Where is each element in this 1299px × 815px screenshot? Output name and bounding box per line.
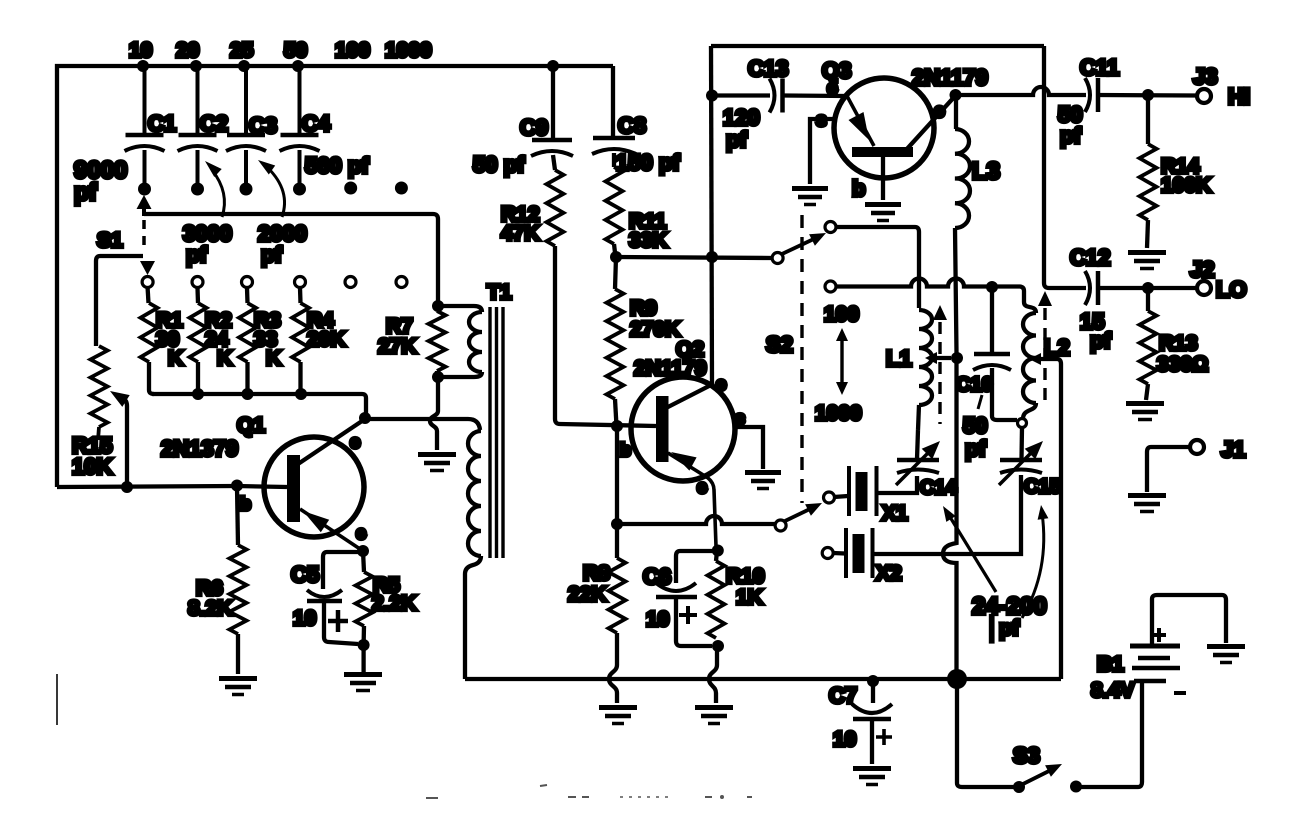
label: C5 value 10 xyxy=(293,607,316,630)
label: C8 value 150 pf xyxy=(616,150,680,175)
svg-text:c: c xyxy=(934,101,945,122)
leader arrow to C3 xyxy=(258,160,285,217)
svg-text:L1: L1 xyxy=(886,346,912,371)
node: S1 contact 3 xyxy=(242,277,253,288)
resistor R2 xyxy=(190,288,207,394)
svg-text:47K: 47K xyxy=(501,222,540,245)
svg-text:C3: C3 xyxy=(249,113,277,138)
node: Q1 emitter junction xyxy=(357,545,369,557)
wire: R7 to ground (hops collector line) xyxy=(430,377,438,450)
label: C7 xyxy=(829,683,857,708)
svg-text:24-200: 24-200 xyxy=(972,593,1047,620)
transformer T1 secondary xyxy=(465,431,481,679)
node: C10 top junction xyxy=(986,281,998,293)
svg-text:c: c xyxy=(350,432,360,452)
capacitor C12 xyxy=(1085,271,1098,305)
label: X1 xyxy=(882,502,908,525)
wire: R12 to Q2 base xyxy=(555,246,656,426)
svg-text:R8: R8 xyxy=(583,562,610,585)
svg-text:pf: pf xyxy=(1060,123,1081,148)
capacitor C8 xyxy=(592,66,636,167)
svg-text:50 pf: 50 pf xyxy=(473,152,525,177)
wire: S1 pole from R15 xyxy=(96,256,143,346)
label: X2 xyxy=(876,562,902,585)
svg-text:J1: J1 xyxy=(1221,437,1245,462)
pot R15 wiper xyxy=(110,391,130,482)
resistor R11 xyxy=(606,167,623,257)
label: LO xyxy=(1216,277,1247,302)
svg-text:1K: 1K xyxy=(736,586,763,609)
capacitor C9 xyxy=(531,66,573,170)
transistor Q2 collector xyxy=(666,384,713,408)
svg-text:│pf: │pf xyxy=(986,615,1020,642)
svg-text:8.2K: 8.2K xyxy=(188,597,232,620)
node: R11 bottom junction xyxy=(610,251,622,263)
svg-text:e: e xyxy=(827,78,838,99)
inductor L1 slug arrow xyxy=(933,305,947,424)
label: R4 20K xyxy=(307,309,346,351)
leader arrow to C15 xyxy=(1022,505,1048,618)
label: R13 330 ohm xyxy=(1157,332,1208,376)
node: R13 top junction xyxy=(1142,282,1154,294)
label: Q2 s xyxy=(735,408,745,428)
svg-text:22K: 22K xyxy=(568,583,607,606)
node: R7 top junction xyxy=(432,300,444,312)
label: L1 xyxy=(886,346,912,371)
capacitor C7 xyxy=(852,681,892,764)
label: L3 xyxy=(972,158,1000,185)
capacitor C6 xyxy=(656,551,714,646)
label: Q2 xyxy=(676,338,704,361)
switch S2 lower throw (to X1) xyxy=(824,492,835,503)
node: bus junction dots xyxy=(137,60,559,72)
crystal X1 xyxy=(849,466,877,516)
label: J3 xyxy=(1193,64,1217,89)
transistor Q3 base lead xyxy=(881,157,885,200)
label: C13 value 120 pf xyxy=(723,105,760,152)
node: X2 contact xyxy=(822,548,833,559)
resistor R1 xyxy=(141,288,158,394)
transistor Q3 s lead xyxy=(810,119,835,184)
node: R5 C5 bottom junction xyxy=(358,639,370,651)
wire: J1 to ground xyxy=(1147,447,1190,492)
resistor R12 xyxy=(547,170,564,246)
label: S1 xyxy=(97,229,123,252)
potentiometer R15 xyxy=(91,346,108,440)
wire: HI line (hops vertical) xyxy=(956,87,1087,95)
inductor L2 tap xyxy=(1029,353,1061,679)
ground: Q2 s xyxy=(745,473,781,489)
svg-text:10: 10 xyxy=(646,608,669,631)
transistor Q1 emitter xyxy=(300,509,363,551)
switch S2 lower-left contact xyxy=(825,281,836,292)
svg-text:X1: X1 xyxy=(882,502,908,525)
svg-text:pf: pf xyxy=(74,179,98,206)
label: B1 8.4V xyxy=(1091,653,1134,702)
wire: throw to L1 top xyxy=(836,227,919,308)
resistor R6 xyxy=(230,487,247,674)
svg-text:100: 100 xyxy=(335,39,370,62)
svg-text:C5: C5 xyxy=(291,562,319,587)
ground: R13 xyxy=(1126,404,1164,420)
svg-text:K: K xyxy=(217,347,232,370)
artifact: bottom smudges xyxy=(426,785,752,799)
label: Q3 b xyxy=(852,176,865,201)
wire: LO feedback line (hops two verticals) xyxy=(836,279,1024,303)
label: R9 270K xyxy=(630,297,680,341)
svg-text:R9: R9 xyxy=(630,297,657,320)
wire: battery plus to ground xyxy=(1152,595,1226,644)
svg-text:S1: S1 xyxy=(97,229,123,252)
svg-text:20K: 20K xyxy=(307,328,346,351)
battery B1 xyxy=(1130,646,1180,688)
capacitor C1 xyxy=(125,66,177,196)
node: main bottom junction xyxy=(947,669,967,689)
label: R3 33K xyxy=(254,309,281,370)
svg-text:L2: L2 xyxy=(1044,335,1070,360)
label: position 20 xyxy=(176,39,199,62)
label: Q3 xyxy=(822,58,851,83)
svg-text:c: c xyxy=(716,374,726,394)
transistor Q3 emitter xyxy=(847,96,874,146)
label: C11 xyxy=(1080,55,1119,80)
node: S1 contact 4 xyxy=(295,277,306,288)
label: position 10 xyxy=(129,39,152,62)
wire: S3 to battery minus xyxy=(1076,683,1142,787)
svg-text:100: 100 xyxy=(824,303,859,326)
inductor L2 xyxy=(1023,302,1036,418)
wire: bottom common bus xyxy=(465,677,1061,681)
ground: J1 xyxy=(1128,496,1166,512)
label: C15 xyxy=(1024,476,1061,498)
capacitor C10 xyxy=(973,287,1017,420)
label: R7 27K xyxy=(378,315,417,358)
label: R14 100K xyxy=(1161,155,1211,197)
svg-text:10: 10 xyxy=(129,39,152,62)
node: S1 contact 2 xyxy=(192,277,203,288)
wire: X1 to C14 bottom xyxy=(877,476,918,493)
svg-text:pf: pf xyxy=(965,436,986,461)
switch S1 gang dashed link xyxy=(142,220,146,252)
svg-text:s: s xyxy=(735,408,745,428)
label: S2 position 100 xyxy=(824,303,859,326)
label: C6 polarity + xyxy=(679,606,697,624)
label: C12 value 15 pf xyxy=(1080,309,1111,353)
wire: base node to S2 lower pole (hops emitter) xyxy=(617,516,775,524)
svg-text:330Ω: 330Ω xyxy=(1157,353,1208,376)
wire: contact to X2 xyxy=(833,551,845,556)
label: C13 xyxy=(748,56,788,81)
label: C7 polarity + xyxy=(876,729,892,745)
node: S1 contact 5 xyxy=(345,277,356,288)
node: C7 junction xyxy=(867,675,879,687)
resistor R5 xyxy=(356,551,373,645)
svg-text:HI: HI xyxy=(1228,84,1250,109)
switch S1 wiper arrow (to C1 node) xyxy=(137,195,152,216)
ground: R6 xyxy=(219,679,257,695)
label: C12 xyxy=(1070,245,1110,270)
svg-text:Q1: Q1 xyxy=(237,414,265,437)
svg-text:2N1179: 2N1179 xyxy=(912,65,988,90)
node: unused dots 100/1000 xyxy=(344,182,408,195)
node: Q1 collector junction xyxy=(359,412,371,424)
ground: R8 xyxy=(599,708,637,724)
label: C5 polarity + xyxy=(328,610,348,632)
label: Q3 type 2N1179 xyxy=(912,65,988,90)
switch S3 throw xyxy=(1070,781,1082,793)
capacitor C3 xyxy=(226,66,277,196)
label: Q2 type 2N1179 xyxy=(634,357,706,380)
capacitor C4 xyxy=(280,66,331,196)
svg-text:50: 50 xyxy=(284,39,307,62)
svg-text:8.4V: 8.4V xyxy=(1091,679,1134,702)
ground: R7 xyxy=(418,455,456,471)
svg-text:T1: T1 xyxy=(487,281,512,304)
svg-text:LO: LO xyxy=(1216,277,1247,302)
switch S2 lower pole xyxy=(775,520,786,531)
transistor Q1 collector xyxy=(298,419,365,464)
label: J1 xyxy=(1221,437,1245,462)
connector J1 xyxy=(1190,440,1204,454)
transistor Q2 base bar xyxy=(656,396,669,462)
inductor L3 xyxy=(955,95,970,228)
wire: top bus and left vertical xyxy=(57,66,613,487)
resistor R8 xyxy=(609,524,626,703)
svg-text:100K: 100K xyxy=(1161,174,1211,197)
wire: top bus drop to C12 xyxy=(1044,46,1086,288)
svg-text:S3: S3 xyxy=(1013,743,1040,768)
node: R10 bottom junction xyxy=(712,640,724,652)
svg-text:C6: C6 xyxy=(643,564,671,589)
label: Q1 type 2N1379 xyxy=(161,436,238,461)
leader: C10 to value xyxy=(978,395,982,409)
resistor R10 xyxy=(708,551,725,638)
label: R8 22K xyxy=(568,562,610,606)
switch S3 pole xyxy=(1013,781,1025,793)
svg-text:B1: B1 xyxy=(1097,653,1124,676)
label: Q3 c xyxy=(934,101,945,122)
capacitor C2 xyxy=(178,66,229,196)
svg-text:C11: C11 xyxy=(1080,55,1119,80)
label: Q2 b xyxy=(620,440,631,460)
wire: S3 feed xyxy=(957,679,1016,787)
svg-text:560 pf: 560 pf xyxy=(305,153,369,178)
node: R7 bottom junction xyxy=(432,371,444,383)
svg-text:27K: 27K xyxy=(378,335,417,358)
inductor L1 tap xyxy=(925,352,951,364)
node: S1 contact 1 xyxy=(142,277,153,288)
label: C2 value 3000 pf xyxy=(183,221,232,267)
svg-text:C2: C2 xyxy=(200,111,228,136)
ground: Q3 b xyxy=(865,205,901,221)
label: Q3 e xyxy=(827,78,838,99)
switch S2 range arrow xyxy=(836,328,848,395)
crystal X2 xyxy=(846,528,873,578)
label: C10 value 50 pf xyxy=(963,413,987,461)
label: R12 47K xyxy=(501,203,540,245)
wire: Q2 base node down to R8 node xyxy=(615,426,619,524)
label: R1 30K xyxy=(156,309,183,370)
transistor Q3 circle xyxy=(834,78,934,178)
svg-text:2N1379: 2N1379 xyxy=(161,436,238,461)
label: Q1 b xyxy=(240,494,251,514)
svg-text:pf: pf xyxy=(726,127,747,152)
switch S2 gang dashed link xyxy=(800,215,803,503)
label: C1 value 9000 pf xyxy=(74,157,127,206)
label: J2 xyxy=(1190,257,1214,282)
switch S2 upper throw (to L1) xyxy=(825,222,836,233)
resistor R4 xyxy=(292,288,309,394)
label: L2 xyxy=(1044,335,1070,360)
label: position 25 xyxy=(230,39,254,62)
wire: C11 to J3 xyxy=(1098,93,1197,98)
transistor Q3 base bar xyxy=(852,147,913,157)
label: S2 position 1000 xyxy=(815,402,862,425)
svg-text:150 pf: 150 pf xyxy=(616,150,680,175)
svg-text:K: K xyxy=(168,347,183,370)
label: C4 value 560 pf xyxy=(305,153,369,178)
label: Q2 e xyxy=(697,477,707,497)
label: R10 1K xyxy=(726,565,765,609)
svg-text:b: b xyxy=(240,494,251,514)
node: Q3 collector junction xyxy=(950,89,962,101)
label: position 100 xyxy=(335,39,370,62)
svg-text:1000: 1000 xyxy=(815,402,862,425)
transistor Q3 collector xyxy=(906,95,956,150)
svg-text:50: 50 xyxy=(963,413,987,438)
svg-text:33K: 33K xyxy=(629,229,668,252)
svg-text:C13: C13 xyxy=(748,56,788,81)
label: Q1 c xyxy=(350,432,360,452)
ground: Q3 s xyxy=(792,189,828,205)
label: T1 xyxy=(487,281,512,304)
svg-text:L3: L3 xyxy=(972,158,1000,185)
svg-text:25: 25 xyxy=(230,39,254,62)
label: S2 xyxy=(766,332,793,357)
svg-text:R13: R13 xyxy=(1159,332,1198,355)
variable capacitor C15 xyxy=(999,427,1043,485)
wire: C12 to J2 xyxy=(1098,286,1197,290)
switch S3 arm xyxy=(1023,764,1062,784)
transistor Q1 circle xyxy=(264,437,364,537)
label: C10 xyxy=(956,374,993,396)
svg-text:b: b xyxy=(620,440,631,460)
label: C5 xyxy=(291,562,319,587)
label: C9 xyxy=(520,115,548,140)
wire: top bus right xyxy=(711,44,1044,48)
label: C14 C15 value 24-200 pf xyxy=(972,593,1047,642)
switch S2 upper pole xyxy=(772,253,783,264)
label: R6 8.2K xyxy=(188,577,232,620)
label: B1 + xyxy=(1152,628,1166,642)
connector J2 xyxy=(1197,281,1211,295)
transistor Q2 s lead xyxy=(734,427,763,469)
variable capacitor C14 xyxy=(896,441,940,485)
inductor L2 slug arrow xyxy=(1038,291,1052,404)
svg-text:X2: X2 xyxy=(876,562,902,585)
label: B1 - xyxy=(1174,691,1186,695)
svg-text:C9: C9 xyxy=(520,115,548,140)
transistor Q2 circle xyxy=(631,377,735,481)
svg-text:1000: 1000 xyxy=(385,39,432,62)
transformer T1 core xyxy=(490,307,503,558)
svg-text:J2: J2 xyxy=(1190,257,1214,282)
ground: battery plus xyxy=(1207,647,1245,663)
capacitor C11 xyxy=(1085,78,1098,112)
label: C3 value 2000 pf xyxy=(258,221,307,267)
node: Q2 emitter junction xyxy=(712,545,724,557)
inductor L1 xyxy=(917,310,932,459)
label: R15 10K xyxy=(72,433,112,479)
svg-text:C4: C4 xyxy=(302,111,331,136)
svg-text:S2: S2 xyxy=(766,332,793,357)
label: Q3 s xyxy=(816,110,827,131)
wire: S1 wiper to T1 top xyxy=(144,214,438,302)
node: R8 top junction xyxy=(611,518,623,530)
resistor R7 xyxy=(429,306,446,377)
svg-text:2.2K: 2.2K xyxy=(372,592,416,615)
node: R14 top junction xyxy=(1142,89,1154,101)
wire: base line left xyxy=(57,486,237,487)
svg-text:pf: pf xyxy=(261,242,282,267)
svg-text:20: 20 xyxy=(176,39,199,62)
node: C13 junction xyxy=(706,90,718,102)
svg-text:10: 10 xyxy=(293,607,316,630)
svg-text:C8: C8 xyxy=(618,113,646,138)
label: C14 xyxy=(920,477,958,499)
svg-text:270K: 270K xyxy=(630,318,680,341)
label: position 1000 xyxy=(385,39,432,62)
wire: R5 to ground xyxy=(361,645,365,672)
wire: C13 left lead xyxy=(712,93,770,97)
label: R2 24K xyxy=(205,309,232,370)
svg-text:pf: pf xyxy=(186,242,207,267)
node: L1 tap junction xyxy=(951,352,963,364)
label: C6 xyxy=(643,564,671,589)
label: R11 33K xyxy=(629,210,668,252)
resistor R9 xyxy=(607,257,624,426)
switch S2 upper arm xyxy=(782,233,826,254)
svg-text:e: e xyxy=(697,477,707,497)
ground: R14 xyxy=(1128,253,1166,269)
label: S3 xyxy=(1013,743,1040,768)
wire: Q1 collector to T1 secondary xyxy=(365,419,480,430)
capacitor C5 xyxy=(307,552,360,644)
node: Q1 base junction xyxy=(231,480,243,492)
svg-text:J3: J3 xyxy=(1193,64,1217,89)
leader arrow to C14 xyxy=(943,506,996,592)
wire: Q1 base xyxy=(237,486,287,487)
wire: throw to X1 xyxy=(834,496,848,497)
ground: R5 xyxy=(344,675,382,691)
svg-text:C10: C10 xyxy=(956,374,993,396)
node: Q2 base junction xyxy=(611,420,623,432)
svg-text:10: 10 xyxy=(833,728,856,751)
label: C7 value 10 xyxy=(833,728,856,751)
switch S1 pole arrow xyxy=(140,261,155,275)
label: Q1 e xyxy=(356,523,366,543)
svg-text:C12: C12 xyxy=(1070,245,1110,270)
node: S2 feed junction xyxy=(706,251,718,263)
wire: X2 to C15 bottom xyxy=(873,475,1022,554)
label: C9 value 50 pf xyxy=(473,152,525,177)
svg-text:10K: 10K xyxy=(72,454,112,479)
svg-text:C1: C1 xyxy=(148,111,176,136)
svg-text:C15: C15 xyxy=(1024,476,1061,498)
wire: LO line corner into L2 xyxy=(0,0,2,2)
ground: R10 xyxy=(695,708,733,724)
connector J3 xyxy=(1197,89,1211,103)
